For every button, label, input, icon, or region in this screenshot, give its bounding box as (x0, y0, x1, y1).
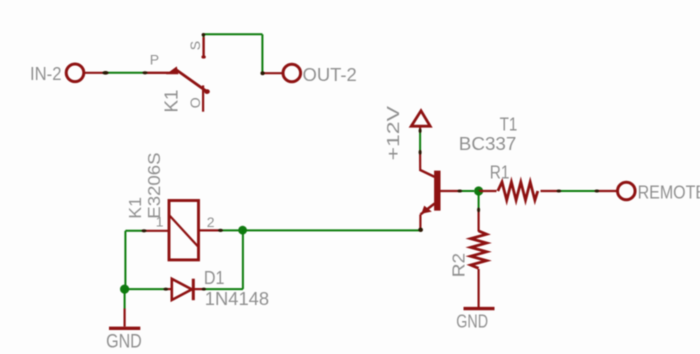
svg-text:R2: R2 (449, 253, 469, 277)
svg-text:R1: R1 (490, 163, 510, 183)
svg-text:K1: K1 (162, 90, 182, 113)
svg-text:GND: GND (456, 312, 488, 332)
svg-text:OUT-2: OUT-2 (303, 65, 357, 85)
svg-text:D1: D1 (204, 268, 225, 288)
svg-text:REMOTE: REMOTE (638, 182, 700, 202)
svg-text:1N4148: 1N4148 (205, 289, 269, 309)
svg-text:P: P (150, 51, 159, 67)
svg-text:IN-2: IN-2 (30, 64, 62, 84)
svg-text:2: 2 (207, 214, 215, 230)
svg-text:E3206S: E3206S (144, 153, 164, 219)
svg-text:O: O (187, 97, 203, 108)
svg-text:K1: K1 (125, 197, 145, 219)
svg-text:S: S (187, 41, 203, 50)
svg-text:+12V: +12V (383, 106, 403, 161)
svg-text:T1: T1 (500, 114, 518, 134)
svg-text:GND: GND (106, 332, 142, 353)
svg-text:BC337: BC337 (459, 134, 517, 154)
